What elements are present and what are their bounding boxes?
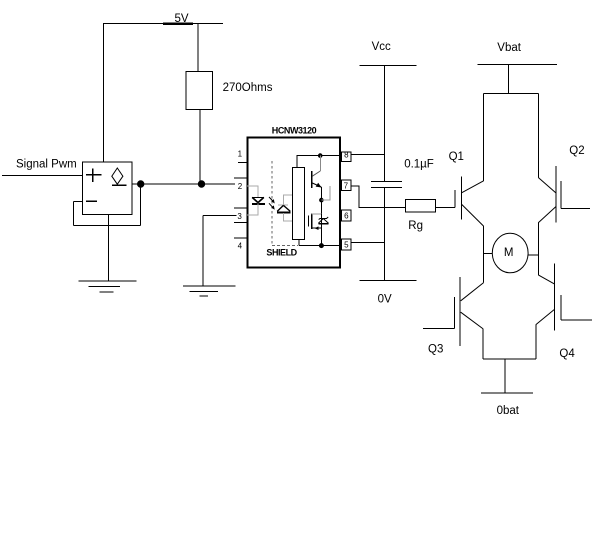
wire Vbat rail to Q2 collector [537, 93, 539, 177]
transistor Q4 collector diagonal [538, 275, 554, 284]
diamond dependent-source symbol [112, 168, 123, 184]
wire Q2 emitter to Q4 collector [537, 223, 539, 275]
plus sign of source [86, 174, 102, 176]
wire source output to pin 2 [132, 183, 235, 185]
svg-text:Q4: Q4 [559, 348, 575, 360]
wire gray photodiode top lead [284, 195, 293, 205]
shield dashed line horizontal [272, 244, 298, 246]
svg-text:Q3: Q3 [428, 343, 443, 355]
diode D3 triangle [318, 219, 328, 224]
svg-text:2: 2 [238, 182, 243, 191]
wire pin 3 to ground [203, 214, 236, 216]
svg-text:0.1µF: 0.1µF [404, 159, 434, 171]
wire Vcc rail lower [383, 187, 385, 280]
mosfet M1 drain lead gray [312, 213, 322, 215]
pin 2 stub [234, 177, 247, 179]
mosfet M1 source lead [312, 227, 322, 229]
wire Q3 emitter down [482, 329, 484, 360]
diode D3 cathode bent ends [319, 218, 320, 219]
wire gray cathode loop LED to pin3 [247, 203, 258, 215]
junction dot bottom rail [319, 244, 323, 248]
junction dot resistor node [198, 181, 204, 187]
transistor Q3 body bar [459, 277, 461, 346]
transistor Q1 gate bar [454, 190, 456, 207]
transistor Q5 emitter diagonal [312, 183, 321, 187]
diode D1 input LED [252, 197, 265, 204]
mosfet M1 gate bar [308, 215, 310, 226]
0V supply bar [359, 279, 416, 281]
transistor Q4 emitter diagonal [536, 309, 555, 324]
wire gray anode loop pin2 to LED [247, 186, 258, 198]
svg-text:Vcc: Vcc [372, 41, 391, 53]
motor M body [492, 233, 528, 273]
junction dot IC top rail [318, 154, 322, 158]
wire ground vertical pin 3 [202, 215, 204, 286]
pin 5 box [342, 239, 352, 250]
photodiode D2 cathode bar gray [278, 204, 288, 206]
light arrow 1 [269, 197, 275, 210]
wire feedback bottom horizontal [73, 224, 140, 226]
wire emitter down [320, 187, 322, 214]
ground under pin 3 [183, 285, 235, 287]
svg-text:Rg: Rg [408, 220, 423, 232]
transistor Q2 body bar [555, 166, 557, 223]
svg-text:7: 7 [344, 181, 349, 190]
mosfet M1 source arrowhead [315, 226, 319, 230]
wire 5V to resistor top [197, 24, 199, 72]
op-amp U2 HCNW3120 package outline [247, 137, 340, 267]
svg-text:Vbat: Vbat [497, 42, 521, 54]
transistor Q4 gate bar [560, 295, 562, 320]
shield dashed line vertical [271, 161, 273, 245]
wire Rg to Q1 gate [435, 206, 455, 208]
svg-text:4: 4 [238, 241, 243, 250]
pin 8 box [342, 152, 352, 162]
wire Vbat rail to Q1 collector [483, 93, 485, 180]
mosfet M1 body bar [311, 213, 313, 229]
wire Vbat rail [484, 92, 539, 94]
transistor Q1 body bar [460, 177, 462, 220]
wire gray photodiode bottom lead [284, 213, 293, 221]
transistor Q3 emitter diagonal [461, 312, 483, 328]
svg-text:5: 5 [344, 241, 349, 250]
wire Q4 emitter down [535, 325, 537, 360]
svg-text:SHIELD: SHIELD [266, 248, 297, 258]
transistor Q2 collector diagonal [538, 178, 556, 194]
transistor Q5 collector diagonal [312, 171, 320, 176]
0bat supply bar [481, 392, 533, 394]
wire resistor bottom to node [199, 109, 201, 184]
amplifier block rectangle [293, 168, 305, 240]
transistor Q2 emitter diagonal [538, 207, 556, 223]
svg-text:270Ohms: 270Ohms [223, 82, 273, 94]
capacitor C1 top plate [371, 181, 402, 183]
transistor Q1 collector diagonal [462, 181, 484, 193]
wire IC bottom rail to pin 5 [299, 245, 340, 247]
diode D3 cathode bar [320, 217, 327, 219]
svg-text:1: 1 [238, 150, 243, 159]
svg-text:0V: 0V [378, 293, 392, 305]
svg-text:Q1: Q1 [449, 151, 464, 163]
svg-text:M: M [504, 247, 514, 259]
wire bottom rail Q3 Q4 [483, 358, 536, 360]
svg-text:Signal Pwm: Signal Pwm [16, 158, 77, 170]
capacitor C1 bottom plate [371, 186, 402, 188]
wire pin 8 to Vcc rail [351, 153, 384, 155]
wire motor left lead [484, 253, 493, 255]
wire amp bottom stub [298, 240, 300, 246]
wire gray bracket to pin 7 [321, 186, 330, 200]
wire pin 7 jog [351, 186, 406, 207]
diamond underline [112, 184, 126, 186]
svg-text:Q2: Q2 [569, 145, 584, 157]
light arrow 2 [269, 203, 273, 208]
transistor Q3 gate lead [423, 328, 454, 330]
wire collector drop gray [319, 156, 321, 171]
svg-text:0bat: 0bat [497, 405, 520, 417]
transistor Q4 body bar [554, 263, 556, 330]
wire Signal Pwm input [2, 175, 83, 177]
svg-text:8: 8 [344, 151, 349, 160]
wire amp top to Vcc rail of IC [297, 156, 340, 168]
ground under source [79, 280, 137, 282]
svg-text:HCNW3120: HCNW3120 [272, 126, 317, 136]
resistor Rg body [406, 200, 436, 212]
transistor Q2 gate lead [561, 208, 590, 210]
minus sign of source [86, 200, 97, 202]
pin 6 box [342, 210, 352, 221]
wire Vbat stem [508, 65, 510, 94]
pin 3 stub upper [234, 207, 247, 209]
junction dot emitter node [320, 198, 324, 202]
resistor 270Ohms body [186, 71, 213, 109]
transistor Q4 gate lead [561, 319, 592, 321]
transistor Q2 gate bar [560, 181, 562, 209]
transistor Q3 collector diagonal [461, 283, 484, 301]
wire feedback left vertical [72, 201, 74, 225]
wire feedback from minus input [73, 200, 82, 202]
wire 5V rail horizontal [103, 23, 223, 25]
pin 3 stub lower [234, 222, 247, 224]
wire Vcc rail upper [383, 66, 385, 182]
wire output vertical through diode [320, 214, 322, 246]
svg-text:3: 3 [237, 212, 242, 221]
wire Q1 emitter to Q3 collector [483, 226, 485, 283]
diode D3 anode bar [318, 223, 328, 225]
transistor Q3 gate bar [453, 297, 455, 329]
svg-text:6: 6 [344, 212, 349, 221]
transistor Q1 emitter diagonal [462, 205, 484, 227]
wire source bottom to ground [107, 214, 109, 281]
Vcc supply bar [359, 65, 416, 67]
Vbat supply bar [477, 64, 557, 66]
transistor Q5 emitter arrowhead [316, 183, 322, 188]
photodiode D2 [277, 205, 291, 212]
wire 5V to source top [103, 24, 105, 163]
wire feedback up to output node [140, 184, 142, 225]
pin 7 box [342, 180, 352, 191]
source U1 PWM source box [83, 162, 133, 214]
pin 4 stub [234, 237, 247, 239]
junction dot output [138, 181, 144, 187]
pin 1 stub [238, 161, 247, 163]
wire pin 5 to 0V rail [351, 242, 384, 244]
transistor Q5 NPN base bar [311, 171, 313, 188]
wire 0bat stem [504, 359, 506, 393]
wire motor right lead [528, 254, 538, 256]
